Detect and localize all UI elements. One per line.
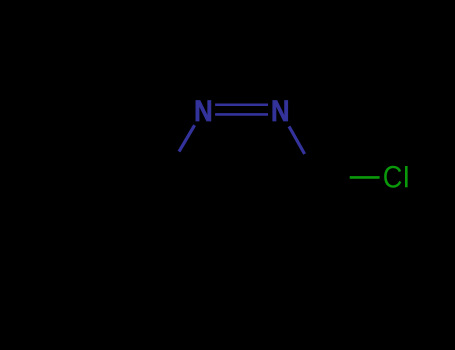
svg-text:N: N: [271, 94, 290, 127]
svg-text:N: N: [194, 94, 213, 127]
svg-text:C: C: [383, 161, 403, 195]
